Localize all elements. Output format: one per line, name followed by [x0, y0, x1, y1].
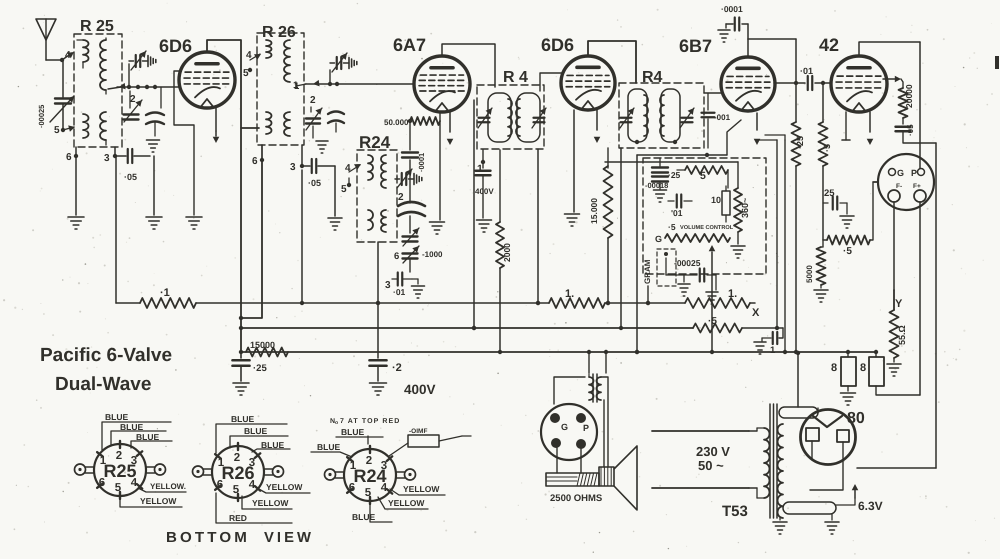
svg-text:15000: 15000	[250, 340, 275, 350]
svg-text:YELLOW: YELLOW	[140, 496, 177, 506]
svg-text:1: 1	[477, 163, 483, 175]
svg-text:X: X	[752, 307, 760, 319]
svg-text:F-: F-	[896, 183, 902, 190]
svg-text:YELLOW: YELLOW	[252, 498, 289, 508]
svg-text:·5: ·5	[708, 316, 717, 327]
svg-text:6: 6	[252, 156, 258, 167]
svg-text:YELLOW: YELLOW	[403, 484, 440, 494]
svg-text:5: 5	[54, 125, 60, 136]
svg-text:BLUE: BLUE	[105, 412, 128, 422]
svg-text:6: 6	[66, 152, 72, 163]
svg-text:BLUE: BLUE	[136, 432, 159, 442]
svg-text:-001: -001	[714, 113, 731, 122]
svg-text:BLUE: BLUE	[120, 422, 143, 432]
svg-text:·25: ·25	[668, 170, 681, 180]
svg-text:'01: '01	[671, 208, 683, 218]
svg-text:YELLOW: YELLOW	[266, 482, 303, 492]
svg-text:5: 5	[243, 68, 249, 79]
svg-text:·05: ·05	[308, 178, 321, 188]
svg-text:YELLOW: YELLOW	[388, 498, 425, 508]
svg-text:2500 OHMS: 2500 OHMS	[550, 493, 602, 504]
svg-text:R 26: R 26	[262, 24, 296, 41]
svg-text:230 V: 230 V	[696, 444, 730, 459]
svg-text:Dual-Wave: Dual-Wave	[55, 374, 151, 395]
svg-text:BOTTOM: BOTTOM	[166, 530, 250, 546]
svg-text:R25: R25	[103, 461, 136, 481]
svg-text:·1: ·1	[160, 287, 170, 299]
svg-text:5: 5	[233, 484, 240, 496]
svg-text:Pacific 6-Valve: Pacific 6-Valve	[40, 345, 172, 366]
svg-text:R4: R4	[642, 69, 663, 86]
svg-text:P: P	[911, 168, 917, 178]
svg-text:BLUE: BLUE	[261, 440, 284, 450]
svg-text:50 ~: 50 ~	[698, 458, 724, 473]
svg-text:·25: ·25	[795, 136, 805, 149]
svg-text:·05: ·05	[906, 124, 915, 136]
svg-text:20000: 20000	[904, 84, 914, 108]
svg-text:BLUE: BLUE	[244, 426, 267, 436]
svg-text:BLUE: BLUE	[231, 414, 254, 424]
svg-text:3: 3	[385, 280, 391, 291]
svg-text:4: 4	[65, 50, 71, 61]
svg-text:6.3V: 6.3V	[858, 499, 883, 513]
svg-text:15.000: 15.000	[589, 198, 599, 224]
svg-text:1: 1	[770, 345, 776, 356]
svg-text:·25: ·25	[253, 363, 267, 374]
svg-text:3: 3	[104, 153, 110, 164]
svg-text:BLUE: BLUE	[341, 427, 364, 437]
svg-text:F+: F+	[913, 183, 921, 190]
svg-text:G: G	[655, 234, 662, 244]
svg-text:Y: Y	[895, 298, 903, 310]
svg-text:5: 5	[341, 184, 347, 195]
svg-text:-00025: -00025	[674, 258, 701, 268]
svg-text:6D6: 6D6	[541, 35, 574, 55]
svg-text:42: 42	[819, 35, 839, 55]
svg-text:GRAM: GRAM	[643, 259, 652, 284]
svg-text:R24: R24	[359, 133, 391, 152]
svg-text:5: 5	[115, 482, 122, 494]
svg-text:4: 4	[246, 50, 252, 61]
svg-text:2: 2	[398, 192, 404, 203]
svg-text:R 4: R 4	[503, 69, 528, 86]
svg-text:5: 5	[365, 487, 372, 499]
svg-text:R26: R26	[221, 463, 254, 483]
svg-text:RED: RED	[229, 513, 247, 523]
svg-text:50.000: 50.000	[384, 118, 409, 127]
svg-text:25: 25	[824, 188, 835, 199]
svg-text:360~: 360~	[740, 198, 750, 218]
svg-text:8: 8	[860, 362, 866, 374]
svg-text:3: 3	[290, 162, 296, 173]
svg-text:1: 1	[293, 80, 299, 91]
svg-text:T53: T53	[722, 503, 748, 520]
svg-text:·5: ·5	[668, 222, 676, 232]
svg-text:·5: ·5	[822, 144, 832, 152]
svg-text:1.: 1.	[565, 288, 574, 300]
svg-text:·0001: ·0001	[721, 4, 743, 14]
svg-text:G: G	[897, 168, 904, 178]
svg-text:BLUE: BLUE	[352, 512, 375, 522]
svg-text:-00018: -00018	[645, 181, 668, 190]
svg-text:2: 2	[130, 94, 136, 105]
svg-text:·5: ·5	[843, 246, 852, 257]
svg-text:·0001: ·0001	[417, 153, 426, 172]
svg-text:6A7: 6A7	[393, 35, 426, 55]
svg-text:5: 5	[700, 170, 706, 182]
svg-text:400V: 400V	[475, 187, 494, 196]
svg-text:400V: 400V	[404, 382, 436, 397]
svg-text:o: o	[335, 420, 338, 426]
svg-text:·05: ·05	[124, 172, 137, 182]
svg-text:8: 8	[831, 362, 837, 374]
svg-text:VIEW: VIEW	[264, 530, 314, 546]
svg-text:6: 6	[394, 251, 399, 262]
svg-text:·01: ·01	[800, 66, 813, 76]
svg-text:·00025: ·00025	[37, 105, 46, 128]
svg-text:80: 80	[847, 410, 865, 427]
svg-text:2000: 2000	[502, 243, 512, 262]
svg-text:10: 10	[711, 195, 721, 205]
svg-text:·2: ·2	[392, 362, 402, 374]
svg-text:R24: R24	[353, 466, 386, 486]
svg-text:6B7: 6B7	[679, 36, 712, 56]
svg-text:4: 4	[345, 163, 351, 174]
svg-text:-OIMF: -OIMF	[409, 428, 427, 435]
svg-text:BLUE: BLUE	[317, 442, 340, 452]
svg-text:·01: ·01	[393, 287, 406, 297]
svg-text:1.: 1.	[728, 288, 737, 300]
svg-text:2: 2	[310, 95, 316, 106]
svg-text:P: P	[583, 423, 589, 433]
svg-text:YELLOW.: YELLOW.	[150, 482, 186, 491]
svg-text:55.Ω: 55.Ω	[897, 325, 907, 345]
svg-text:6D6: 6D6	[159, 36, 192, 56]
svg-text:R 25: R 25	[80, 18, 114, 35]
svg-text:-1000: -1000	[422, 250, 443, 259]
svg-text:7 AT TOP RED: 7 AT TOP RED	[340, 418, 400, 425]
svg-text:VOLUME CONTROL: VOLUME CONTROL	[680, 225, 734, 231]
svg-text:G: G	[561, 422, 568, 432]
svg-text:5000: 5000	[805, 265, 814, 283]
